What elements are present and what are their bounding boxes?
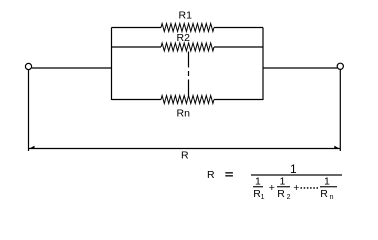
svg-text:1: 1	[324, 176, 330, 188]
svg-text:1: 1	[261, 194, 265, 201]
svg-text:+: +	[293, 182, 299, 194]
svg-text:n: n	[330, 194, 334, 201]
svg-text:R: R	[320, 188, 328, 200]
svg-text:1: 1	[255, 176, 261, 188]
svg-text:2: 2	[287, 194, 291, 201]
svg-text:+: +	[269, 182, 275, 194]
svg-text:R: R	[207, 169, 215, 181]
svg-text:R: R	[181, 150, 189, 162]
svg-text:R: R	[277, 188, 285, 200]
svg-text:Rn: Rn	[177, 108, 191, 120]
svg-text:1: 1	[280, 176, 286, 188]
svg-text:1: 1	[290, 162, 297, 176]
svg-text:R2: R2	[177, 32, 191, 44]
svg-text:R1: R1	[179, 10, 193, 22]
